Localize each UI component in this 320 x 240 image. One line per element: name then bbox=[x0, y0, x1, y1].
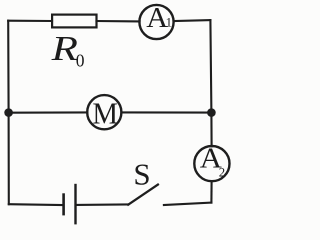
svg-text:S: S bbox=[133, 157, 150, 192]
svg-text:R: R bbox=[50, 30, 78, 68]
wire right vertical upper bbox=[210, 20, 211, 146]
battery positive plate bbox=[74, 185, 76, 223]
motor M bbox=[87, 95, 121, 129]
battery negative plate bbox=[62, 195, 65, 215]
svg-text:0: 0 bbox=[76, 51, 85, 71]
wire battery to switch bbox=[77, 203, 129, 206]
wire A2 to bottom right corner bbox=[210, 181, 212, 202]
node left junction bbox=[4, 108, 13, 117]
wire left vertical bbox=[7, 21, 10, 205]
ammeter A1 bbox=[139, 5, 173, 39]
wire top left segment bbox=[8, 20, 52, 22]
svg-text:M: M bbox=[92, 96, 118, 130]
svg-text:2: 2 bbox=[219, 166, 225, 180]
wire bottom left segment bbox=[9, 203, 63, 206]
wire resistor to A1 bbox=[97, 20, 140, 22]
switch S lever bbox=[128, 185, 158, 205]
node right junction bbox=[207, 108, 216, 117]
resistor R0 bbox=[52, 15, 96, 28]
label R0 bbox=[50, 30, 84, 71]
wire bottom right segment bbox=[164, 203, 212, 205]
wire middle horizontal right bbox=[121, 111, 211, 113]
wire A1 to top right corner bbox=[174, 19, 211, 22]
label A1 bbox=[146, 3, 172, 34]
ammeter A2 bbox=[194, 146, 229, 181]
svg-text:1: 1 bbox=[166, 16, 172, 30]
wire middle horizontal left bbox=[9, 111, 88, 113]
label A2 bbox=[200, 143, 225, 179]
